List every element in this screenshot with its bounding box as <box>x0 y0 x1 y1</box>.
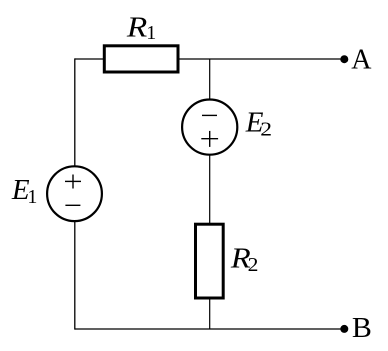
svg-text:1: 1 <box>146 22 156 44</box>
E2 minus sign <box>202 114 217 116</box>
source E1 <box>47 166 102 221</box>
svg-text:2: 2 <box>260 118 272 140</box>
source E2 <box>182 100 237 155</box>
label R2 <box>230 242 259 276</box>
svg-text:B: B <box>352 313 372 344</box>
label E1 <box>11 174 38 208</box>
E1 minus sign <box>65 204 80 206</box>
svg-text:1: 1 <box>27 186 37 208</box>
svg-text:A: A <box>351 45 372 76</box>
node B terminal dot <box>340 325 348 333</box>
wire bottom from E1 branch to node B <box>75 328 344 330</box>
label R1 <box>126 10 156 44</box>
wire middle branch through E2 and R2 <box>209 59 211 329</box>
resistor R1 <box>104 46 178 72</box>
label E2 <box>245 107 272 140</box>
svg-text:2: 2 <box>248 253 259 276</box>
E1 plus sign <box>65 175 81 189</box>
E2 plus sign <box>201 131 218 147</box>
node A terminal dot <box>340 55 348 63</box>
svg-text:R: R <box>126 10 147 42</box>
wire top from E1 branch to node A <box>75 58 344 60</box>
resistor R2 <box>196 224 224 298</box>
wire left branch through E1 <box>74 58 76 329</box>
